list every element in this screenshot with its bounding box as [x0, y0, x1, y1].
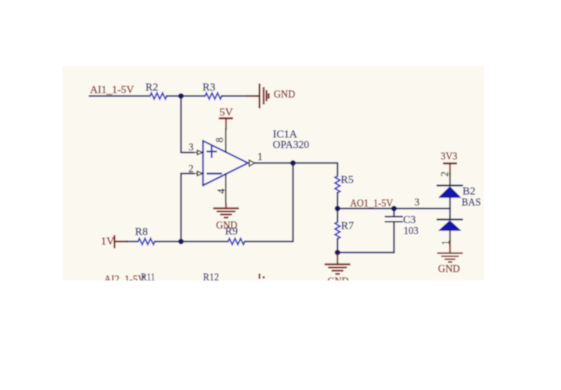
- svg-text:2: 2: [189, 164, 194, 175]
- svg-text:2: 2: [440, 172, 451, 177]
- svg-text:4: 4: [217, 189, 228, 194]
- op-amp plus sign: [207, 146, 216, 157]
- power port 1V bar: [114, 236, 116, 247]
- svg-text:BAS: BAS: [462, 197, 481, 209]
- wire AO1 net to diodes: [338, 208, 451, 210]
- svg-text:8: 8: [215, 138, 226, 143]
- junction node A (181,96): [178, 93, 184, 99]
- svg-text:103: 103: [404, 225, 419, 237]
- wire R3-to-GND: [222, 95, 248, 97]
- pin 3 lead with arrow: [193, 150, 203, 154]
- svg-text:3V3: 3V3: [441, 151, 458, 163]
- ground GND earth lead right: [449, 241, 451, 253]
- capacitor C3 plates: [386, 217, 403, 222]
- wire op-amp output to R5 corner: [255, 163, 338, 176]
- svg-text:3: 3: [415, 198, 420, 209]
- pin 1 output lead with arrow: [249, 160, 254, 166]
- ground GND bar-style lead: [248, 95, 259, 97]
- ground GND bar-style symbol: [260, 85, 269, 108]
- svg-text:AO1_1-5V: AO1_1-5V: [350, 197, 393, 209]
- op-amp U1 triangle body: [203, 141, 248, 186]
- junction node B (181,241.5): [178, 239, 184, 245]
- diode B2 top cathode bar: [438, 185, 463, 187]
- resistor R9 body: [228, 239, 245, 245]
- junction node C (337.5,252.5): [335, 250, 341, 256]
- power port 3V3 lead: [449, 163, 451, 174]
- ground GND earth symbol under op-amp: [214, 208, 238, 217]
- power port 3V3 bar: [444, 162, 456, 164]
- svg-text:R8: R8: [135, 226, 148, 238]
- white mask right of canvas: [484, 0, 561, 390]
- svg-text:R5: R5: [341, 174, 354, 186]
- power fragment bottom: [259, 274, 265, 279]
- wire pin2 to lower rail: [181, 174, 194, 242]
- svg-text:1: 1: [258, 152, 263, 163]
- pin 8 lead maroon part: [225, 118, 227, 129]
- op-amp minus sign: [208, 173, 222, 175]
- svg-text:1V: 1V: [101, 236, 115, 248]
- wire net AI1 top: label-to-R2: [90, 95, 151, 97]
- diode B2 pin 2 lead: [449, 174, 451, 186]
- diode B2 top triangle: [438, 186, 461, 198]
- svg-text:AI1_1-5V: AI1_1-5V: [90, 84, 134, 96]
- svg-text:R9: R9: [225, 226, 238, 238]
- diode B2 bottom cathode bar: [438, 219, 463, 221]
- wire junction A down to pin3: [181, 96, 194, 153]
- resistor R7 body: [335, 222, 340, 239]
- svg-text:3: 3: [189, 142, 194, 153]
- wire R7 to bottom junction: [337, 239, 339, 253]
- schematic canvas background: [63, 66, 485, 281]
- junction node out (293,163): [290, 160, 296, 166]
- diode B2 bottom triangle: [438, 220, 461, 231]
- power port 5V bar: [220, 117, 232, 119]
- pin 8 lead black part: [225, 129, 227, 152]
- pin 2 lead with arrow: [193, 171, 203, 175]
- resistor R8 body: [138, 239, 155, 245]
- pin 4 lead black part: [225, 174, 227, 204]
- wire between diodes: [449, 198, 451, 220]
- wire R2-to-junction-to-R3: [167, 95, 205, 97]
- svg-text:R7: R7: [341, 220, 354, 232]
- svg-text:R2: R2: [145, 81, 158, 93]
- diode B2 pin 1 lead: [449, 231, 451, 242]
- ground GND earth lead left: [337, 253, 339, 265]
- capacitor C3 bottom lead and wire to junction C: [338, 222, 395, 253]
- power port 1V lead: [115, 241, 128, 243]
- capacitor C3 top lead: [393, 209, 395, 217]
- svg-text:OPA320: OPA320: [273, 139, 310, 151]
- svg-text:GND: GND: [274, 89, 295, 101]
- white mask below canvas: [0, 281, 561, 390]
- ground GND earth lead under op-amp: [225, 204, 227, 208]
- junction node AO1 (337.5,208.5): [335, 206, 341, 212]
- ground GND earth symbol left: [326, 264, 350, 274]
- ground GND earth symbol right: [438, 253, 462, 262]
- wire 1V-to-R8: [127, 241, 138, 243]
- svg-text:B2: B2: [463, 185, 476, 197]
- svg-text:R3: R3: [203, 81, 216, 93]
- wire R9 to feedback riser: [245, 163, 293, 242]
- svg-text:5V: 5V: [220, 107, 234, 119]
- resistor R5 body: [335, 176, 340, 193]
- wire R5 to AO1 junction: [337, 193, 339, 222]
- wire R8-to-junction-to-R9: [155, 241, 228, 243]
- svg-text:GND: GND: [438, 263, 460, 275]
- resistor R2 body: [150, 93, 167, 99]
- junction node D (394,208.5): [391, 206, 397, 212]
- svg-text:1: 1: [441, 240, 452, 245]
- resistor R3 body: [205, 93, 222, 99]
